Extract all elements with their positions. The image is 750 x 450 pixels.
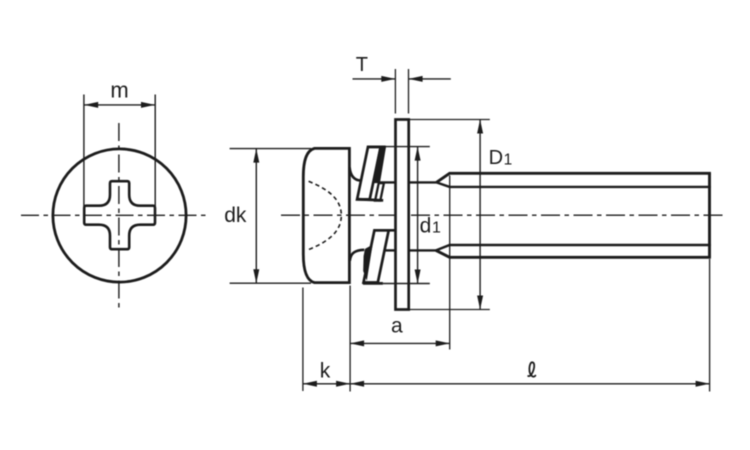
dimension a: left arrowhead: [350, 340, 364, 346]
shank right of washer (bottom): [409, 249, 436, 251]
dimension d1: bottom arrowhead: [415, 270, 421, 284]
hidden recess cone (dashed arc): [309, 181, 342, 249]
spring washer top: near coil band: [357, 147, 381, 200]
shank between washers (bottom): [384, 249, 394, 251]
screw head outline circle (top view): [53, 149, 186, 282]
flat washer (side view): [396, 120, 409, 310]
shank between washers (top): [379, 181, 395, 183]
dimension m: right extension line: [154, 95, 156, 207]
dimension D1: bottom extension line: [409, 309, 489, 311]
thread crest top line with runout: [436, 173, 711, 182]
side view: axis centerline: [281, 214, 727, 216]
dimension k: left extension line: [302, 288, 304, 392]
spring washer bottom: inner edge line: [374, 229, 395, 232]
spring washer bottom: helix arc to head: [350, 250, 365, 261]
svg-text:T: T: [356, 54, 368, 76]
svg-text:D: D: [489, 147, 503, 169]
dimension k: right arrowhead: [336, 381, 350, 387]
dimension m: dimension line: [84, 104, 155, 106]
dimension T: left arrowhead: [381, 76, 395, 82]
dimension d1: top arrowhead: [415, 147, 421, 161]
dimension T: right extension line: [408, 69, 410, 114]
dimension l: right extension line: [709, 259, 711, 392]
svg-text:k: k: [320, 360, 331, 383]
spring washer top: helix arc to head: [350, 167, 361, 180]
thread root top line with runout: [436, 182, 711, 187]
svg-text:m: m: [110, 77, 128, 102]
dimension a: right extension line: [449, 176, 451, 350]
dimension a: dimension line: [350, 342, 450, 344]
dimension m: right arrowhead: [141, 102, 155, 108]
dimension D1: top extension line: [409, 119, 489, 121]
thread end face: [708, 173, 711, 257]
dimension T: left extension line: [394, 69, 396, 114]
label l (script ell glyph): [528, 362, 535, 376]
dimension m: left extension line: [83, 95, 85, 207]
dimension T: right dimension line: [409, 78, 451, 80]
shared extension line (k right / a left / l left): [349, 286, 351, 392]
dimension d1: dimension line: [417, 147, 419, 284]
dimension D1: top arrowhead: [477, 120, 483, 134]
head top view: vertical centerline: [118, 123, 120, 309]
dimension d1: bottom extension line: [383, 283, 430, 285]
thread root bottom line with runout: [436, 245, 711, 250]
shank right of washer (top): [409, 181, 436, 183]
phillips cross recess (top view): [84, 181, 155, 249]
spring washer top: bearing edge: [357, 199, 383, 200]
thread crest bottom line with runout: [436, 250, 711, 257]
dimension dk: bottom arrowhead: [253, 269, 259, 283]
svg-text:d: d: [420, 215, 432, 238]
dimension k: dimension line: [303, 383, 350, 385]
dimension k: left arrowhead: [303, 381, 317, 387]
dimension D1: bottom arrowhead: [477, 296, 483, 310]
dimension dk: top arrowhead: [253, 149, 259, 163]
dimension dk: bottom extension line: [230, 282, 311, 284]
dimension dk: dimension line: [255, 149, 257, 284]
dimension T: left dimension line: [353, 78, 396, 80]
svg-text:1: 1: [504, 151, 513, 168]
dimension l: dimension line: [350, 383, 709, 385]
spring washer bottom: black section wedge: [363, 245, 372, 281]
dimension D1: dimension line: [479, 120, 481, 310]
dimension d1: top extension line: [386, 146, 430, 148]
svg-text:dk: dk: [224, 204, 247, 227]
spring washer top: OD edge (thick): [368, 146, 386, 149]
pan head bearing face line: [348, 147, 351, 284]
dimension l: right arrowhead: [696, 381, 710, 387]
svg-text:a: a: [391, 315, 403, 338]
dimension l: left arrowhead: [350, 381, 364, 387]
head top view: horizontal centerline: [21, 214, 209, 216]
dimension dk: top extension line: [230, 148, 311, 150]
spring washer top: black section wedge: [372, 146, 386, 183]
pan head (side view) outline: [303, 148, 349, 282]
dimension m: left arrowhead: [84, 102, 98, 108]
dimension a: right arrowhead: [436, 340, 450, 346]
spring washer bottom: near coil band: [364, 230, 389, 282]
spring washer bottom: OD edge (thick): [363, 282, 383, 285]
svg-text:1: 1: [432, 219, 441, 236]
spring washer top: far coil band lower part: [375, 183, 384, 201]
dimension T: right arrowhead: [409, 76, 423, 82]
